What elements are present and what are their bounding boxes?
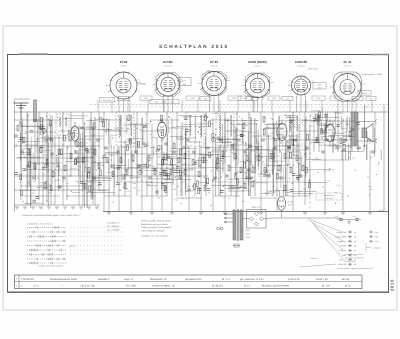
wire [276, 140, 278, 211]
terminal fan wire 5 [300, 264, 336, 267]
svg-text:100: 100 [173, 188, 176, 191]
node [199, 127, 200, 128]
wire [255, 153, 257, 173]
svg-text:6,3V 0,5A: 6,3V 0,5A [297, 64, 305, 67]
wire [197, 100, 199, 112]
wire [226, 130, 246, 132]
resistor R40 [270, 153, 272, 159]
wire [219, 100, 221, 112]
wire [337, 112, 339, 152]
resistor R172 [217, 158, 219, 164]
wire [200, 123, 202, 136]
tube socket lead wire [252, 98, 254, 112]
capacitor C141 [342, 148, 346, 150]
wire [227, 179, 239, 181]
svg-text:245V 210V: 245V 210V [308, 68, 319, 71]
resistor R10 [70, 153, 72, 159]
wire [124, 124, 143, 126]
tube pin leader left [330, 86, 334, 88]
resistor R131 [184, 153, 186, 159]
capacitor C16 [104, 146, 108, 148]
node [91, 152, 92, 153]
wire [258, 173, 263, 175]
wire [195, 126, 211, 128]
wire [91, 128, 93, 200]
wire [44, 169, 80, 171]
wire [320, 121, 322, 133]
wire [83, 130, 85, 147]
measurement label box [352, 97, 363, 101]
wire [257, 130, 259, 170]
wire [21, 118, 23, 139]
resistor R18 [120, 157, 122, 163]
wire [150, 146, 155, 148]
node [45, 181, 46, 182]
svg-text:80 210: 80 210 [342, 278, 350, 281]
wire [28, 149, 30, 187]
wire [340, 116, 342, 130]
wire [326, 120, 328, 137]
node [237, 114, 238, 115]
capacitor C36 [237, 138, 241, 140]
node [67, 146, 68, 147]
node [212, 181, 213, 182]
wire [23, 147, 33, 149]
svg-text:UKW-Teil: UKW-Teil [338, 263, 346, 266]
svg-text:0,25: 0,25 [133, 182, 137, 185]
svg-text:0,25: 0,25 [45, 180, 49, 183]
wire [23, 189, 36, 191]
ground bus wire [103, 211, 389, 213]
tube socket lead wire [172, 97, 174, 112]
capacitor C106 [184, 117, 188, 119]
ground [223, 212, 227, 214]
wire [121, 146, 135, 148]
wire [16, 157, 48, 159]
bus wire y182 right [214, 181, 306, 183]
svg-text:8µ: 8µ [289, 177, 291, 180]
wire [86, 146, 88, 205]
wire [128, 123, 150, 125]
svg-text:70p: 70p [370, 156, 373, 159]
capacitor C9 [62, 176, 66, 178]
svg-text:EF 85: EF 85 [210, 60, 218, 64]
node [168, 116, 169, 117]
svg-text:47k: 47k [354, 169, 357, 172]
wire [297, 135, 299, 148]
svg-text:2n: 2n [188, 155, 190, 158]
svg-text:vorbehalten!: vorbehalten! [345, 260, 356, 263]
rectifier diode D1 [255, 212, 259, 216]
capacitor C131 [231, 143, 235, 145]
tube socket lead wire [118, 100, 120, 112]
wire [288, 139, 290, 165]
svg-text:6: 6 [251, 71, 252, 74]
wire [165, 153, 177, 155]
wire [274, 152, 276, 169]
measurement label box [366, 97, 376, 101]
wire [266, 165, 286, 167]
ground [150, 212, 154, 214]
ground [107, 212, 111, 214]
capacitor C1 [14, 134, 18, 136]
capacitor C162 [116, 182, 120, 184]
tube pin leader lower [108, 91, 111, 92]
wire [169, 156, 177, 158]
node [59, 188, 60, 189]
node [254, 151, 255, 152]
wire [170, 148, 184, 150]
wire [221, 139, 239, 141]
capacitor C103 [292, 173, 296, 175]
capacitor C49 [315, 138, 319, 140]
wire [118, 116, 120, 139]
resistor R128 [50, 120, 52, 126]
svg-text:0,1: 0,1 [250, 131, 253, 134]
capacitor C21 [134, 150, 138, 152]
node [161, 187, 162, 188]
svg-text:Graetz KG Altena i. W.: Graetz KG Altena i. W. [152, 285, 175, 288]
node [113, 202, 114, 203]
wire [184, 169, 193, 171]
wire [14, 100, 16, 212]
svg-text:70p: 70p [157, 197, 160, 200]
switch row extension dashes [70, 249, 71, 251]
svg-text:6: 6 [117, 69, 118, 72]
wire [236, 112, 238, 196]
wire [181, 124, 183, 196]
wire [294, 192, 314, 194]
switch row contacts [29, 253, 31, 255]
node [95, 161, 96, 162]
IF can F4 secondary coil [231, 115, 232, 137]
capacitor C163 [177, 170, 181, 172]
node [71, 191, 72, 192]
wire [86, 126, 97, 128]
resistor R111 [64, 135, 66, 141]
wire [94, 177, 113, 179]
wire [89, 119, 91, 142]
svg-text:5k: 5k [240, 167, 242, 170]
wire [224, 112, 226, 211]
wire [309, 124, 311, 196]
wire [146, 182, 174, 184]
svg-text:8µ: 8µ [268, 158, 270, 161]
wire [288, 157, 303, 159]
node [126, 139, 127, 140]
wire [40, 181, 47, 183]
node [317, 172, 318, 173]
capacitor C40 [261, 138, 265, 140]
node [329, 168, 330, 169]
wire [293, 191, 316, 193]
resistor R205 [316, 137, 318, 143]
capacitor C203 [325, 124, 329, 126]
node [273, 137, 274, 138]
label box right of V2 [178, 78, 191, 86]
capacitor C117 [160, 120, 164, 122]
wire [21, 125, 23, 144]
wire [167, 158, 192, 160]
frame border [8, 55, 389, 293]
node [294, 145, 295, 146]
wire [347, 143, 349, 160]
svg-text:12k: 12k [328, 119, 331, 122]
svg-text:Chassis: Chassis [310, 257, 317, 260]
node [109, 177, 110, 178]
wire [124, 142, 126, 166]
wire [219, 145, 221, 197]
capacitor C105 [40, 145, 44, 147]
resistor R165 [209, 121, 211, 127]
wire [131, 150, 133, 179]
tube element heptode V2a ECH81 [158, 122, 167, 138]
wire x384 elbow [378, 210, 384, 212]
resistor R171 [235, 173, 237, 179]
svg-text:7: 7 [173, 70, 174, 73]
wire [169, 150, 179, 152]
tube pin leader left [198, 83, 202, 85]
wire [254, 136, 256, 170]
capacitor C3 [26, 164, 30, 166]
svg-text:6,3V 4V: 6,3V 4V [254, 64, 261, 67]
svg-text:6,3V 0,7A: 6,3V 0,7A [344, 64, 352, 67]
tube pin leader right [180, 81, 184, 83]
svg-text:105V: 105V [190, 97, 195, 100]
wire [285, 139, 287, 196]
capacitor C128 [194, 161, 198, 163]
wire [326, 111, 328, 122]
wire [84, 140, 86, 208]
output transformer primary [351, 112, 353, 146]
svg-text:0,3-0,5V: 0,3-0,5V [103, 99, 111, 102]
wire [239, 177, 251, 179]
svg-text:5k: 5k [131, 128, 133, 131]
terminal row 3 second contact [369, 240, 373, 243]
svg-text:100: 100 [170, 171, 173, 174]
svg-text:8: 8 [138, 78, 139, 81]
svg-text:0,5M: 0,5M [48, 191, 52, 194]
wire [268, 160, 286, 162]
wire [151, 137, 159, 139]
wire [70, 167, 77, 169]
capacitor C164 [58, 185, 62, 187]
svg-text:2: 2 [263, 98, 264, 101]
wire [84, 122, 86, 149]
capacitor C7 [50, 152, 54, 154]
svg-text:C 403: C 403 [288, 201, 293, 204]
svg-text:0,25: 0,25 [100, 157, 104, 160]
svg-text:b2: b2 [354, 263, 356, 266]
wire [110, 134, 112, 149]
svg-text:250: 250 [308, 179, 311, 182]
wire [82, 112, 84, 205]
svg-text:70p: 70p [368, 185, 371, 188]
wire [222, 147, 224, 164]
speaker connector marks [374, 120, 377, 144]
svg-text:20k: 20k [147, 184, 150, 187]
wire [240, 160, 252, 162]
capacitor C165 [143, 124, 147, 126]
rectifier enclosure [247, 210, 267, 229]
capacitor C55 [357, 146, 361, 148]
wire [146, 157, 154, 159]
capacitor C108 [240, 133, 244, 135]
svg-text:10n: 10n [23, 156, 26, 159]
wire [369, 150, 371, 211]
tube pin leader left [153, 84, 157, 86]
resistor R4 [34, 163, 36, 169]
resistor R24 [162, 159, 164, 165]
svg-text:1k: 1k [184, 133, 186, 136]
wire [181, 148, 197, 150]
power transformer core [236, 209, 238, 241]
capacitor C138 [159, 172, 163, 174]
wire [83, 157, 95, 159]
wire [98, 112, 100, 190]
resistor R173 [163, 170, 165, 176]
svg-text:8µ: 8µ [138, 165, 140, 168]
fuse [234, 244, 239, 247]
svg-text:5: 5 [244, 79, 245, 82]
wire [332, 120, 334, 154]
capacitor C35 [231, 146, 235, 148]
coil [39, 118, 43, 122]
tube pin leader left [288, 85, 292, 87]
IF can F3 secondary coil [201, 115, 202, 137]
wire [212, 112, 221, 114]
capacitor C170 [80, 181, 84, 183]
node [111, 159, 112, 160]
capacitor C10 [68, 138, 72, 140]
node [42, 121, 43, 122]
wire [195, 116, 197, 141]
wire [137, 163, 147, 165]
wire [195, 159, 207, 161]
wire [66, 195, 96, 197]
wire [242, 149, 270, 151]
wire [26, 112, 28, 205]
svg-text:105V: 105V [144, 97, 149, 100]
wire [92, 123, 94, 201]
node [38, 138, 39, 139]
wire [136, 164, 138, 181]
node [322, 187, 323, 188]
wire [176, 137, 196, 139]
svg-text:Drucktasten: L M K U TA: Drucktasten: L M K U TA Aus [27, 223, 53, 226]
svg-text:127V: 127V [246, 233, 251, 236]
node [252, 165, 253, 166]
tube V4 shield outline [246, 73, 270, 98]
svg-text:gez. Hartmann 12.3.53: gez. Hartmann 12.3.53 [240, 278, 264, 281]
svg-text:12k: 12k [186, 174, 189, 177]
tube pin leader lower [332, 92, 335, 93]
node [369, 195, 370, 196]
wire [108, 123, 110, 144]
svg-text:150: 150 [133, 187, 136, 190]
resistor R175 [128, 115, 130, 121]
tube element pentode V3a EF85 cathode [280, 133, 284, 136]
svg-text:a1: a1 [354, 231, 356, 234]
wire [90, 112, 92, 200]
svg-text:105V: 105V [316, 97, 321, 100]
wire [211, 138, 236, 140]
capacitor C27 [178, 176, 182, 178]
wire [36, 140, 38, 153]
resistor R14 [94, 149, 96, 155]
resistor R125 [68, 131, 70, 137]
tube socket lead wire [347, 101, 349, 112]
tube element heptode V2a ECH81 leads [161, 118, 163, 122]
svg-text:500: 500 [278, 154, 281, 157]
wire [108, 120, 110, 211]
wire [284, 115, 296, 117]
wire [18, 156, 42, 158]
svg-text:47k: 47k [285, 156, 288, 159]
svg-text:20k: 20k [50, 156, 53, 159]
wire [264, 192, 275, 194]
wire [161, 138, 163, 211]
svg-text:2010: 2010 [390, 279, 395, 291]
wire [24, 168, 43, 170]
svg-text:5: 5 [200, 77, 201, 80]
wire [334, 135, 352, 137]
terminal row 8 contact [348, 263, 352, 266]
svg-text:10 Tfk K 52: 10 Tfk K 52 [288, 278, 300, 281]
resistor R57 [84, 183, 86, 189]
svg-text:25p: 25p [205, 121, 208, 124]
node [335, 192, 336, 193]
node [348, 195, 349, 196]
node [78, 182, 79, 183]
svg-text:105V: 105V [333, 97, 338, 100]
svg-text:1: 1 [138, 91, 139, 94]
svg-text:g1: g1 [354, 240, 356, 243]
resistor R164 [272, 153, 274, 159]
wire [284, 195, 310, 197]
wire [214, 140, 216, 196]
node [190, 130, 191, 131]
wire [233, 124, 235, 159]
wire [198, 141, 200, 164]
wire [141, 117, 143, 144]
node [43, 133, 44, 134]
svg-text:12k: 12k [242, 200, 245, 203]
bus wire y154 mid [104, 153, 208, 155]
switch row contacts [56, 231, 58, 233]
wire [248, 112, 250, 196]
wire [266, 127, 271, 129]
node [147, 159, 148, 160]
resistor R15 [98, 163, 100, 169]
wire [70, 127, 95, 129]
wire [269, 137, 284, 139]
tube pin leader right [311, 82, 315, 84]
ground [129, 212, 133, 214]
wire [21, 126, 39, 128]
wire [90, 118, 92, 130]
wire [199, 182, 209, 184]
wire [349, 117, 351, 132]
wire [241, 118, 243, 145]
svg-text:0,1: 0,1 [230, 122, 233, 125]
svg-text:20k: 20k [111, 134, 114, 137]
wire [199, 154, 220, 156]
node [150, 121, 151, 122]
capacitor C26 [172, 150, 176, 152]
bus wire y146 left [14, 145, 100, 147]
capacitor C134 [274, 138, 278, 140]
